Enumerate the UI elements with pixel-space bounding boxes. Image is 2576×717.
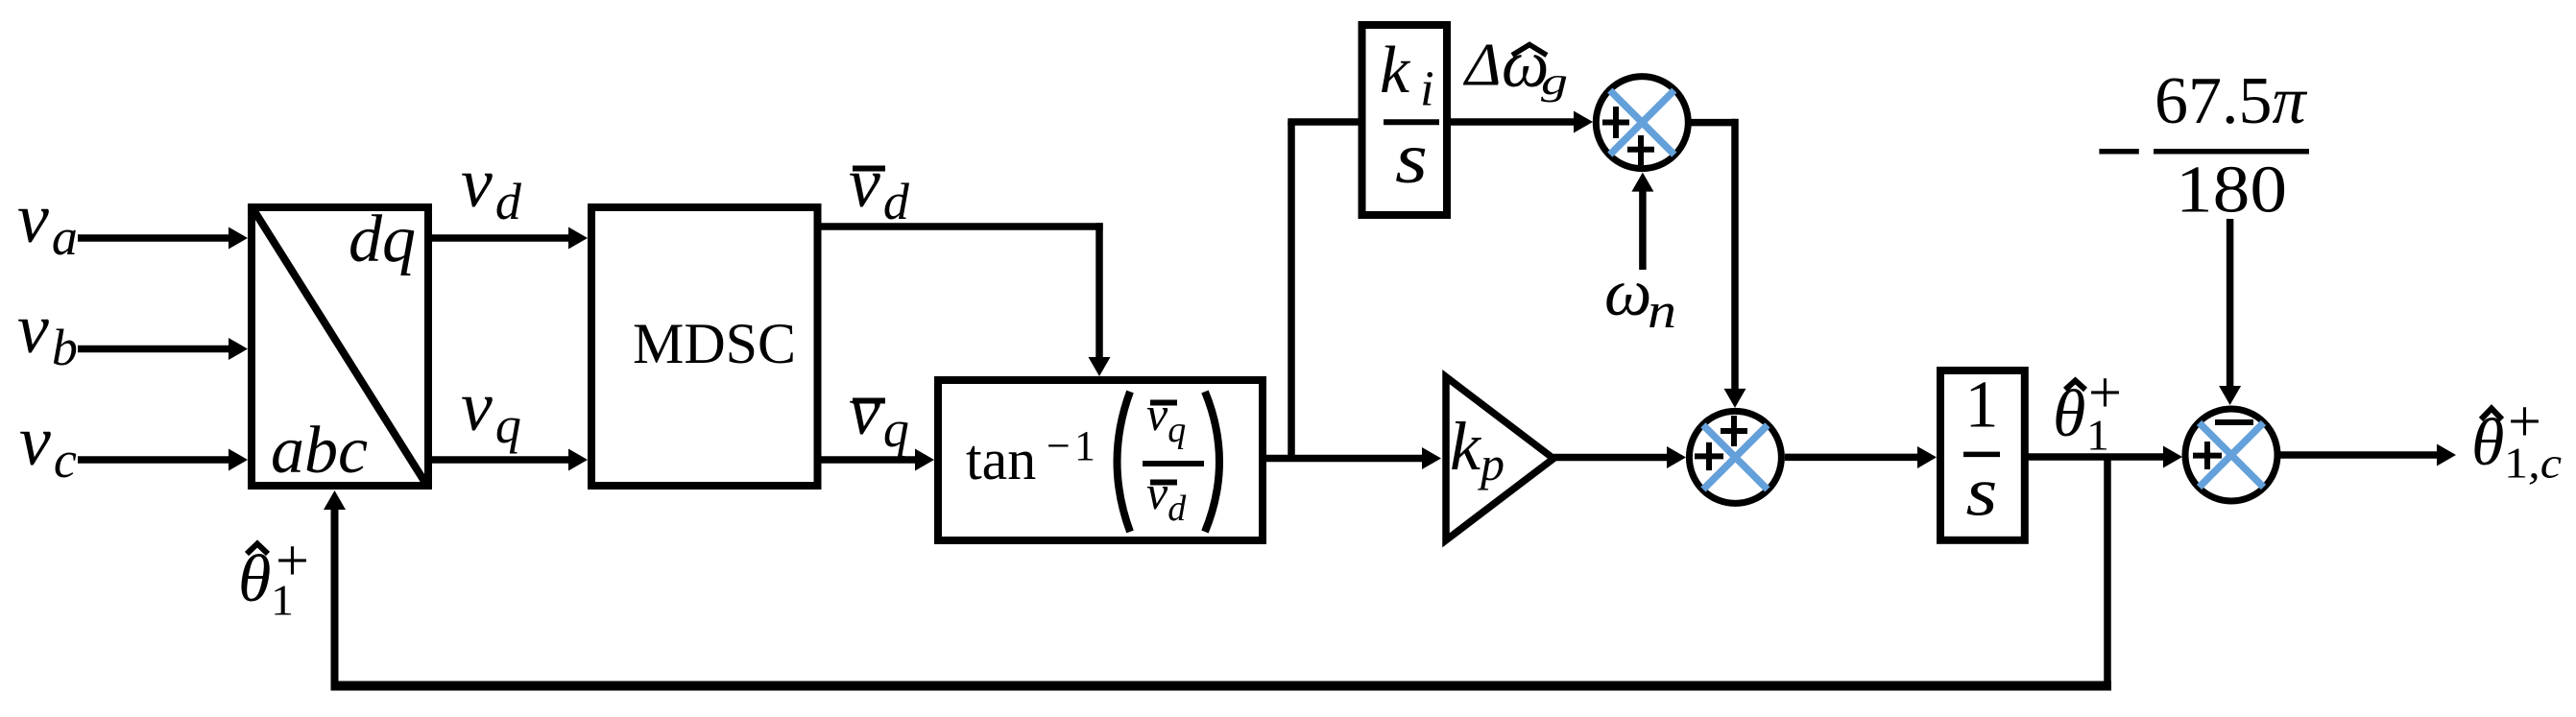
- svg-text:g: g: [1541, 60, 1568, 103]
- wire branch up to ki/s: [1288, 122, 1361, 462]
- svg-text:1: 1: [2086, 411, 2109, 460]
- wire vq: [428, 449, 588, 471]
- svg-text:Δ: Δ: [1462, 31, 1502, 99]
- label vd-bar: [849, 144, 910, 230]
- wire kp output to summer S2: [1553, 446, 1686, 468]
- node fraction -67.5pi/180: [2099, 64, 2309, 227]
- wire va input: [78, 227, 248, 250]
- label vd: [461, 144, 522, 230]
- block abc-to-dq transform: [252, 203, 428, 488]
- label theta-hat-1c-plus output: [2471, 390, 2562, 488]
- wire integrator output to summer S3: [2025, 446, 2182, 468]
- svg-text:−: −: [1047, 422, 1071, 469]
- svg-text:tan: tan: [966, 428, 1036, 491]
- wire vd: [428, 227, 588, 250]
- summer S2: [1689, 411, 1781, 503]
- svg-text:n: n: [1648, 284, 1676, 339]
- wire vc input: [78, 449, 248, 471]
- svg-text:dq: dq: [349, 203, 416, 276]
- svg-text:ω: ω: [1604, 256, 1651, 330]
- wire ki/s output to summer S1: [1447, 111, 1593, 133]
- svg-text:MDSC: MDSC: [633, 312, 796, 375]
- svg-text:1: 1: [271, 575, 294, 624]
- block arctan: [938, 380, 1263, 540]
- wire vd-bar from MDSC to tan block: [818, 223, 1111, 376]
- wire fraction to summer S3: [2219, 219, 2241, 405]
- svg-text:1: 1: [1074, 422, 1095, 469]
- wire final output: [2278, 444, 2457, 466]
- block 1/s integrator: [1940, 369, 2025, 540]
- wire summer S2 output to integrator: [1785, 446, 1937, 468]
- svg-text:67.5π: 67.5π: [2155, 64, 2308, 138]
- svg-text:1: 1: [1965, 369, 1999, 442]
- label delta omega-hat g: [1462, 28, 1568, 103]
- wire omega-n input: [1631, 173, 1653, 270]
- label vb: [17, 290, 78, 376]
- gain kp triangle: [1446, 377, 1553, 540]
- block MDSC: [591, 207, 818, 486]
- label vq-bar: [849, 371, 909, 458]
- summer S1: [1596, 77, 1688, 169]
- label vq: [461, 368, 521, 454]
- wire feedback bottom to abc/dq: [324, 490, 2111, 690]
- summer S3: [2185, 409, 2277, 501]
- label omega-n: [1604, 256, 1676, 339]
- label theta-hat-1-plus (feedback): [238, 529, 309, 625]
- block ki/s integrator: [1362, 25, 1448, 215]
- wire tan output to kp: [1263, 447, 1441, 469]
- svg-text:abc: abc: [271, 414, 368, 488]
- svg-text:s: s: [1395, 118, 1428, 199]
- wire vb input: [78, 338, 248, 360]
- wire feedback branch down: [2104, 457, 2111, 690]
- label vc: [19, 402, 77, 489]
- wire vq-bar from MDSC to tan block: [818, 449, 935, 471]
- svg-text:1,c: 1,c: [2504, 439, 2562, 488]
- svg-text:180: 180: [2176, 154, 2287, 227]
- label va: [17, 179, 78, 266]
- wire summer S1 output to summer S2: [1688, 119, 1745, 408]
- label theta-hat-1-plus (at integrator output): [2053, 361, 2122, 460]
- svg-text:s: s: [1966, 454, 1998, 531]
